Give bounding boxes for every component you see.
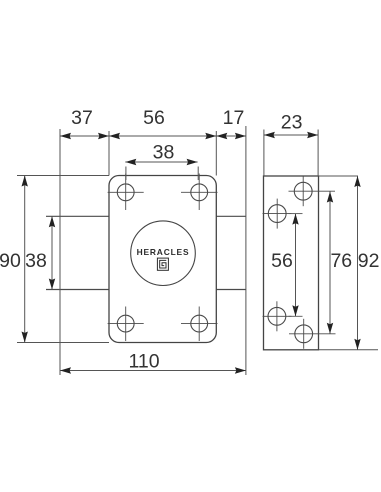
arrows 23	[264, 132, 318, 138]
dim 56 side: line	[295, 214, 297, 317]
svg-text:23: 23	[281, 112, 303, 134]
HERACLES greek-key logo	[157, 258, 168, 270]
svg-text:90: 90	[0, 250, 21, 272]
ticks 38 top	[125, 167, 127, 181]
side hole upper-left	[263, 199, 292, 229]
dim 92: extension top	[319, 175, 359, 177]
arrows 110	[60, 367, 246, 373]
tick 56 side bottom	[289, 315, 303, 317]
svg-text:38: 38	[153, 142, 175, 164]
side hole lower-left	[263, 301, 292, 331]
cylinder circle	[131, 221, 196, 286]
dim 90: extension bottom	[17, 342, 109, 344]
dim 23: extensions	[263, 130, 265, 177]
rear lock body left portion	[46, 216, 109, 289]
extension above plate right edge	[215, 131, 217, 176]
arrows 38 top	[125, 159, 197, 165]
side hole bottom	[289, 319, 336, 349]
side view plate	[264, 176, 319, 350]
screw hole bottom-right	[181, 307, 218, 342]
svg-text:37: 37	[71, 107, 93, 129]
dim 38 left: line	[51, 216, 53, 289]
arrows 56 side	[292, 214, 298, 317]
extension above plate left edge	[108, 131, 110, 176]
screw hole top-right	[181, 174, 218, 211]
svg-text:92: 92	[358, 250, 380, 272]
front plate outline	[109, 176, 216, 343]
dim 92: extension bottom	[319, 349, 379, 351]
dim 92: line	[357, 176, 359, 350]
arrows 92	[354, 176, 360, 350]
dim 38 top: line	[125, 161, 197, 163]
dim 90: extension top	[17, 175, 109, 177]
screw hole top-left	[108, 174, 144, 211]
dim top extension line left x60	[59, 129, 61, 375]
svg-text:56: 56	[271, 250, 293, 272]
dim 90: line	[24, 176, 26, 343]
dim 23: line	[264, 134, 319, 136]
top dimension line 37/56/17	[60, 135, 246, 137]
rear lock body right portion	[216, 216, 246, 289]
svg-text:17: 17	[223, 107, 245, 129]
arrows 76	[327, 192, 333, 334]
arrows 38 left	[49, 216, 55, 289]
arrows top dim	[60, 133, 246, 139]
svg-text:76: 76	[330, 250, 352, 272]
svg-text:110: 110	[128, 351, 159, 373]
side hole top	[289, 177, 336, 207]
screw hole bottom-left	[108, 307, 144, 342]
svg-text:56: 56	[143, 107, 165, 129]
dim 76: line	[329, 192, 331, 334]
tick 56 side top	[289, 213, 303, 215]
arrows 90	[22, 176, 28, 343]
svg-text:38: 38	[25, 250, 47, 272]
dim extension line x246	[245, 126, 247, 375]
dim 110: line	[60, 370, 246, 372]
svg-text:HERACLES: HERACLES	[137, 247, 190, 257]
